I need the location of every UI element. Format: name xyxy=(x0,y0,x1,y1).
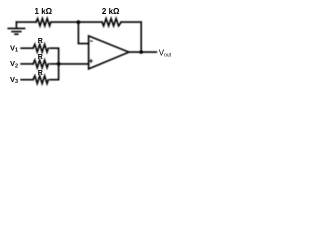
svg-text:R: R xyxy=(38,38,43,45)
wire V2 resistor to join node xyxy=(50,63,58,65)
op-amp minus marker xyxy=(91,40,93,42)
svg-text:1 kΩ: 1 kΩ xyxy=(35,7,53,16)
V2 input wire xyxy=(21,63,33,65)
wire V3 resistor to join, corner up xyxy=(50,64,58,80)
op-amp U1 triangle xyxy=(89,36,129,69)
svg-text:V3: V3 xyxy=(10,75,18,85)
wire ground to R1 xyxy=(16,21,36,23)
resistor R2 2 kOhm xyxy=(102,19,121,26)
svg-text:R: R xyxy=(38,70,43,77)
resistor R (V3) xyxy=(33,76,48,84)
resistor R1 1 kOhm xyxy=(36,18,51,25)
node A junction dot xyxy=(77,20,81,24)
wire R1 to node A xyxy=(51,21,79,23)
resistor R (V2) xyxy=(33,60,48,68)
wire V1 resistor to join, corner down xyxy=(50,48,58,64)
ground xyxy=(8,22,24,34)
join node dot xyxy=(57,62,61,66)
svg-text:R: R xyxy=(38,54,43,61)
op-amp plus marker xyxy=(90,60,93,63)
wire op-amp output to Vout xyxy=(129,51,156,53)
wire R2 to feedback corner xyxy=(121,21,141,23)
svg-text:2 kΩ: 2 kΩ xyxy=(102,7,120,16)
V3 input wire xyxy=(21,79,33,81)
feedback wire down to output node xyxy=(140,22,142,52)
svg-text:Vout: Vout xyxy=(159,48,172,58)
wire node A down to inverting input xyxy=(78,22,88,44)
output node junction dot xyxy=(139,50,143,54)
wire node A to R2 xyxy=(78,21,102,23)
svg-text:V1: V1 xyxy=(10,43,18,53)
svg-text:V2: V2 xyxy=(10,59,18,69)
wire join node to non-inverting input xyxy=(59,63,89,65)
V1 input wire xyxy=(21,47,33,49)
resistor R (V1) xyxy=(33,44,48,52)
